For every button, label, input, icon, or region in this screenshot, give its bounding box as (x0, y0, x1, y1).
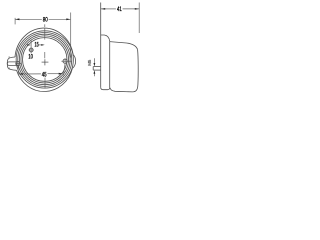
svg-text:15: 15 (35, 41, 39, 48)
svg-text:10: 10 (28, 53, 33, 60)
svg-text:45: 45 (42, 72, 47, 79)
svg-text:M5: M5 (87, 59, 92, 66)
svg-text:80: 80 (43, 17, 48, 24)
svg-text:41: 41 (117, 6, 122, 13)
